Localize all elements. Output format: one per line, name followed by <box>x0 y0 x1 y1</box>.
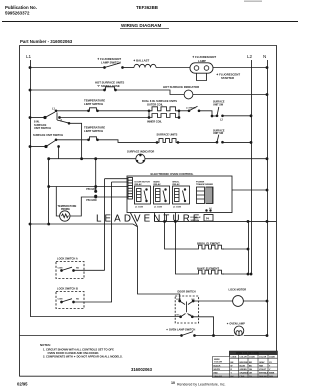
motor M1 lock motor <box>229 287 247 306</box>
header publication number <box>5 5 37 16</box>
wire oven lamp line <box>20 335 182 337</box>
wire L1 bus <box>30 60 32 317</box>
svg-text:P59 GRN: P59 GRN <box>86 199 97 202</box>
node L2 <box>247 54 253 59</box>
switch S5 surface unit switch (left) <box>29 133 63 148</box>
switch S2 surface unit switch (right front) <box>29 108 70 131</box>
svg-text:VIOLET: VIOLET <box>259 369 267 371</box>
svg-text:COM: COM <box>58 299 63 301</box>
wire row1 right to N <box>213 67 267 69</box>
op box U1 electronic oven control <box>127 172 232 213</box>
wire connector drop <box>95 159 97 197</box>
svg-text:DUAL 8 IN. SURFACE UNITS: DUAL 8 IN. SURFACE UNITS <box>142 99 177 103</box>
header top-right faint marks <box>244 0 262 2</box>
svg-text:DOOR MOTOR: DOOR MOTOR <box>135 181 151 183</box>
svg-text:RED: RED <box>214 372 219 374</box>
svg-text:WIRING DIAGRAM: WIRING DIAGRAM <box>121 23 161 28</box>
svg-text:2. COMPONENTS WITH ✦ DO NOT AP: 2. COMPONENTS WITH ✦ DO NOT APPEAR ON AL… <box>43 355 123 359</box>
svg-text:OUTER COIL: OUTER COIL <box>147 103 163 107</box>
wire color code table <box>213 351 278 378</box>
label door lock below control <box>191 217 202 222</box>
svg-text:L1: L1 <box>26 54 32 59</box>
svg-text:W/BK: W/BK <box>269 372 275 374</box>
svg-text:L1 COM: L1 COM <box>173 206 181 208</box>
indicator lamp DS2 surface indicator <box>127 149 154 163</box>
wire row2 right to N <box>193 94 267 96</box>
wire riser <box>69 123 82 158</box>
wire transformer to N <box>232 189 267 191</box>
svg-text:1. CIRCUIT SHOWN WITH ALL CONT: 1. CIRCUIT SHOWN WITH ALL CONTROLS SET T… <box>43 348 114 352</box>
svg-text:TAN: TAN <box>259 364 264 367</box>
wire L1 to door switch NC <box>30 316 181 318</box>
wire to L2 <box>223 141 252 143</box>
switch S1 fluorescent lamp switch <box>97 57 123 68</box>
watermark <box>96 213 203 224</box>
sensor RT1 temperature probe <box>58 205 77 221</box>
switch S4b surface unit sw <box>213 101 225 122</box>
switch S9 lock switch A <box>56 257 105 279</box>
svg-text:NO: NO <box>76 299 80 301</box>
svg-text:LOCK SWITCH B: LOCK SWITCH B <box>57 287 78 291</box>
switch S3 temperature limit switch <box>84 98 105 111</box>
svg-text:L1 COM: L1 COM <box>135 206 143 208</box>
svg-text:CODE: CODE <box>269 357 275 359</box>
svg-text:COLOR: COLOR <box>240 357 248 359</box>
wire row2 left <box>30 89 104 91</box>
svg-text:N: N <box>263 54 266 59</box>
svg-text:LOCK MOTOR: LOCK MOTOR <box>229 287 247 291</box>
connector P59 <box>86 195 97 202</box>
wire row1 left <box>30 67 104 69</box>
connector P58 <box>86 186 97 193</box>
part number line <box>20 39 73 44</box>
svg-text:UNIT SW: UNIT SW <box>213 103 224 106</box>
node N <box>263 54 266 59</box>
wire to N <box>145 158 267 160</box>
notes block <box>40 343 153 372</box>
node L2 inside control <box>206 208 213 212</box>
svg-text:CODE: CODE <box>231 357 237 359</box>
svg-text:WIRE: WIRE <box>214 359 220 361</box>
svg-text:NO: NO <box>76 268 80 270</box>
wire probe riser <box>56 187 59 217</box>
svg-text:SURFACE UNIT SWITCH: SURFACE UNIT SWITCH <box>33 133 63 137</box>
wire lamp to N <box>244 335 267 337</box>
wire <box>123 67 135 69</box>
wire row surface indicator <box>49 158 136 160</box>
svg-text:8 IN.: 8 IN. <box>34 119 40 123</box>
svg-text:COLOR: COLOR <box>259 357 267 359</box>
svg-text:WHITE: WHITE <box>214 369 221 371</box>
switch S6 temperature limit switch <box>84 125 105 140</box>
svg-text:WIRE COLOR CODE: WIRE COLOR CODE <box>236 352 260 355</box>
svg-text:SURFACE INDICATOR: SURFACE INDICATOR <box>127 149 154 153</box>
wire P line <box>60 117 150 119</box>
svg-text:HOT SURFACE INDICATOR: HOT SURFACE INDICATOR <box>163 85 199 89</box>
wire to L2 <box>223 115 252 117</box>
lamp DS3 oven lamp <box>227 322 246 336</box>
svg-text:NOTES:: NOTES: <box>40 343 51 347</box>
wire bake feed drop <box>176 213 197 275</box>
wire diagonal drop to door switch <box>130 213 179 302</box>
wire <box>178 141 217 143</box>
wire lock relay feed 1 <box>105 179 129 271</box>
svg-text:LEADVENTURE: LEADVENTURE <box>96 213 203 224</box>
svg-text:SURFACE: SURFACE <box>34 123 47 127</box>
svg-text:STARTER: STARTER <box>221 76 234 80</box>
footer texts <box>17 381 225 386</box>
svg-text:W: W <box>231 365 233 367</box>
svg-text:R/W: R/W <box>269 376 273 378</box>
svg-text:POWER: POWER <box>196 181 205 183</box>
fuse F1 hot surface limiter <box>95 80 124 91</box>
svg-text:BLACK: BLACK <box>214 364 222 367</box>
svg-text:316002063: 316002063 <box>131 367 153 372</box>
wire element return bar <box>248 221 250 274</box>
wire L2 bus <box>251 60 253 274</box>
svg-text:5995263372: 5995263372 <box>5 11 30 16</box>
svg-text:LIMIT SWITCH: LIMIT SWITCH <box>84 102 103 106</box>
switch S12 oven lamp switch <box>166 327 195 336</box>
svg-text:✦ OVEN LAMP SWITCH: ✦ OVEN LAMP SWITCH <box>166 327 195 331</box>
svg-text:BROIL: BROIL <box>173 181 180 183</box>
svg-text:'Y' SIGNAL FUSE: 'Y' SIGNAL FUSE <box>97 84 120 88</box>
wire <box>98 140 158 143</box>
svg-text:LAMP: LAMP <box>198 59 206 63</box>
wire <box>156 67 190 69</box>
svg-text:Rendered by LeadVenture, Inc.: Rendered by LeadVenture, Inc. <box>177 383 225 387</box>
svg-text:✦ BALLAST: ✦ BALLAST <box>133 59 149 63</box>
relay K3 <box>173 181 190 208</box>
svg-text:SURFACE UNITS: SURFACE UNITS <box>157 133 178 137</box>
wire <box>195 335 235 337</box>
svg-text:LOCK SWITCH A: LOCK SWITCH A <box>57 257 78 261</box>
indicator lamp DS1 hot surface indicator <box>163 85 199 99</box>
lamp FL1 fluorescent lamp <box>190 55 216 73</box>
ballast coil <box>133 59 156 68</box>
svg-text:Publication No.: Publication No. <box>5 5 37 10</box>
heater R2 surface unit <box>156 133 179 144</box>
svg-text:02/95: 02/95 <box>17 381 28 386</box>
wire <box>116 90 185 95</box>
node L1 <box>26 54 32 59</box>
svg-text:RED/WHT: RED/WHT <box>259 376 269 378</box>
header model number <box>136 5 158 10</box>
wire left drop B <box>48 159 50 224</box>
svg-text:L2: L2 <box>247 54 253 59</box>
switch S11 door switch <box>175 290 198 323</box>
svg-text:L1 COM: L1 COM <box>154 206 162 208</box>
svg-text:CODE: CODE <box>249 357 255 359</box>
wire probe return line B <box>70 197 128 216</box>
wire relay drop L2 node <box>154 213 156 222</box>
wire P branch down <box>58 147 60 159</box>
wire N bus <box>267 60 269 336</box>
wire return to L1 <box>30 224 137 227</box>
svg-text:GREEN: GREEN <box>240 369 248 371</box>
svg-text:LIMIT SWITCH: LIMIT SWITCH <box>84 129 103 133</box>
wire probe feed line A <box>49 186 128 188</box>
switch S10 lock switch B <box>56 287 112 309</box>
svg-text:BLUE: BLUE <box>240 365 246 367</box>
svg-text:BROWN: BROWN <box>240 362 248 364</box>
heater R4 bake element <box>196 266 252 275</box>
wire broil feed drop <box>165 213 197 250</box>
border frame <box>20 46 279 377</box>
svg-text:COLOR: COLOR <box>214 362 222 364</box>
wire <box>98 110 150 112</box>
connector J1 pin header <box>128 178 133 200</box>
svg-text:WHT/BLK: WHT/BLK <box>259 372 269 374</box>
svg-text:10: 10 <box>171 381 175 385</box>
wire lock relay feed 2 <box>112 182 129 302</box>
svg-text:✦ OVEN LAMP: ✦ OVEN LAMP <box>227 322 246 326</box>
wire door switch NO to lock motor <box>193 300 233 302</box>
svg-text:LAMP SWITCH: LAMP SWITCH <box>101 61 121 65</box>
transformer T1 <box>196 181 213 203</box>
relay K1 <box>135 181 151 208</box>
svg-text:INNER COIL: INNER COIL <box>147 120 162 124</box>
wire <box>179 110 188 112</box>
wire L2 collector <box>154 220 276 222</box>
svg-text:GRAY: GRAY <box>259 361 265 364</box>
header rule <box>2 21 298 23</box>
svg-text:DOOR SWITCH: DOOR SWITCH <box>178 290 196 293</box>
svg-text:BAKE: BAKE <box>154 180 161 183</box>
svg-text:YELLOW: YELLOW <box>214 376 223 378</box>
starter ST1 fluorescent starter <box>197 72 241 80</box>
switch S4 surface unit switch contact <box>186 106 217 117</box>
wire <box>56 110 88 112</box>
relay K2 <box>154 180 170 208</box>
svg-text:Part Number - 316002063: Part Number - 316002063 <box>20 39 73 44</box>
heater R3 broil element <box>196 241 249 250</box>
wire <box>56 139 88 141</box>
wire door switch NC branch to lamp line <box>192 317 213 336</box>
heater R1 dual 8in surface unit <box>142 99 180 124</box>
svg-text:ORANGE: ORANGE <box>240 371 249 374</box>
svg-text:TEF362BB: TEF362BB <box>136 5 158 10</box>
svg-text:TRANSFORMER: TRANSFORMER <box>196 183 213 186</box>
switch S7 surface unit sw <box>213 129 225 143</box>
svg-text:OVEN DOOR CLOSED AND UNLOCKED.: OVEN DOOR CLOSED AND UNLOCKED. <box>48 351 100 355</box>
svg-text:ELECTRONIC OVEN CONTROL: ELECTRONIC OVEN CONTROL <box>151 172 194 176</box>
wire lock motor to N <box>243 300 267 302</box>
svg-text:UNIT SWITCH: UNIT SWITCH <box>34 126 51 130</box>
header title WIRING DIAGRAM <box>121 23 161 28</box>
svg-text:PINK: PINK <box>240 376 245 378</box>
